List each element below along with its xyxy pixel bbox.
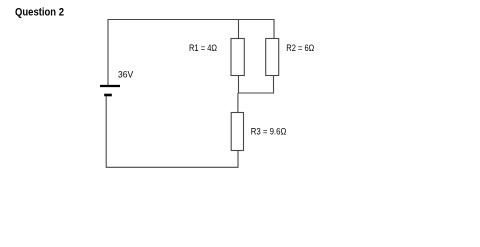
svg-text:36V: 36V — [118, 70, 134, 81]
wire stub top wire down to R1 top — [238, 20, 240, 39]
resistor R3 — [231, 113, 243, 151]
wire R1 bottom to mid node — [238, 76, 240, 94]
svg-text:R2 = 6Ω: R2 = 6Ω — [286, 43, 314, 54]
wire R2 bottom to mid node — [238, 76, 274, 94]
svg-text:R1 = 4Ω: R1 = 4Ω — [189, 43, 217, 54]
battery 36V bottom plate (negative, short) — [104, 94, 112, 97]
resistor R2 — [266, 39, 279, 76]
battery 36V top plate (positive, long) — [100, 85, 120, 87]
svg-text:R3 = 9.6Ω: R3 = 9.6Ω — [251, 126, 287, 137]
wire mid node down to R3 top — [237, 93, 239, 113]
wire bottom rail to R3 bottom — [106, 151, 238, 168]
wire battery negative down to bottom rail — [105, 96, 107, 167]
wire top from battery positive up and across to R2 — [108, 20, 274, 86]
svg-text:Question 2: Question 2 — [15, 6, 64, 18]
resistor R1 — [231, 39, 244, 76]
